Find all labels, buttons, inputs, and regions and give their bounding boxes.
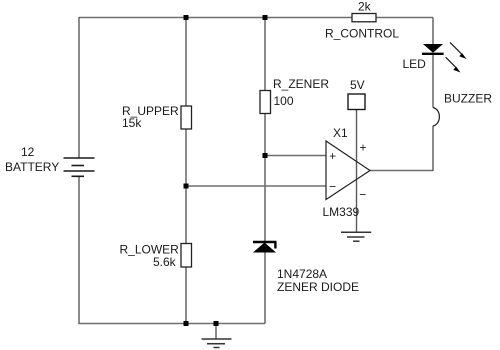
wire divider middle	[185, 129, 187, 244]
node top rail / divider junction	[184, 15, 189, 20]
wire buzzer to output	[432, 126, 434, 171]
wire divider upper	[185, 18, 187, 107]
wire LED rail upper	[432, 18, 434, 45]
zener diode D2 cathode bar	[253, 241, 277, 243]
battery B1 plate short bottom	[72, 175, 85, 177]
svg-text:LED: LED	[403, 57, 427, 71]
svg-text:5V: 5V	[350, 78, 365, 92]
svg-text:2k: 2k	[358, 0, 372, 14]
svg-text:−: −	[329, 180, 336, 194]
battery B1 plate long lower	[64, 170, 95, 172]
wire zener chain middle	[264, 113, 266, 242]
resistor R_UPPER	[181, 106, 192, 129]
ground op-amp line 1	[341, 231, 371, 233]
5V supply box	[348, 94, 365, 110]
wire ground stub	[215, 324, 217, 340]
battery B1 plate short upper	[72, 165, 85, 167]
resistor R_ZENER	[260, 91, 271, 114]
LED D1 triangle	[423, 44, 443, 53]
ground op-amp line 3	[353, 240, 360, 242]
ground bottom rail line 2	[207, 343, 225, 345]
svg-text:ZENER DIODE: ZENER DIODE	[277, 280, 359, 294]
op-amp U1 LM339 triangle	[326, 141, 370, 200]
svg-text:15k: 15k	[122, 116, 142, 130]
LED emission arrow 2	[446, 57, 461, 72]
svg-text:BUZZER: BUZZER	[444, 92, 492, 106]
svg-text:5.6k: 5.6k	[153, 255, 177, 269]
wire zener chain upper	[264, 18, 266, 91]
wire opamp output	[370, 170, 433, 172]
zener diode D2 cathode hook	[274, 242, 276, 249]
wire top rail left segment	[79, 17, 352, 19]
svg-text:100: 100	[274, 94, 294, 108]
svg-text:1N4728A: 1N4728A	[277, 267, 327, 281]
svg-text:R_CONTROL: R_CONTROL	[325, 27, 399, 41]
svg-text:X1: X1	[333, 126, 348, 140]
node top rail / R_ZENER junction	[263, 15, 268, 20]
wire 5V supply through opamp	[356, 110, 358, 233]
svg-text:−: −	[359, 188, 366, 202]
svg-text:+: +	[359, 141, 366, 155]
node bottom rail / ground junction	[214, 321, 219, 326]
wire divider lower	[185, 267, 187, 324]
resistor R_CONTROL	[352, 14, 376, 22]
wire battery to bottom rail	[78, 177, 80, 325]
wire to minus input	[186, 185, 326, 187]
node bottom rail / divider junction	[184, 321, 189, 326]
wire to plus input	[265, 155, 326, 157]
LED D1 cathode bar	[422, 53, 444, 55]
svg-text:+: +	[329, 149, 336, 163]
wire left rail to battery	[78, 17, 80, 158]
resistor R_LOWER	[181, 244, 192, 268]
wire zener chain lower	[264, 253, 266, 324]
svg-text:12: 12	[21, 145, 35, 159]
ground bottom rail line 1	[202, 338, 232, 340]
wire LED to buzzer	[432, 55, 434, 108]
zener diode D2 triangle	[253, 243, 276, 253]
wire top rail right segment	[376, 17, 433, 19]
svg-text:R_ZENER: R_ZENER	[273, 77, 329, 91]
ground op-amp line 2	[347, 236, 365, 238]
ground bottom rail line 3	[214, 347, 220, 349]
buzzer arc	[433, 108, 439, 127]
LED emission arrow 1	[450, 42, 467, 59]
node minus input junction	[184, 184, 189, 189]
battery B1 plate long top	[64, 157, 95, 159]
wire bottom rail	[78, 323, 265, 325]
node plus input junction	[263, 153, 268, 158]
svg-text:BATTERY: BATTERY	[5, 160, 59, 174]
svg-text:LM339: LM339	[323, 205, 360, 219]
